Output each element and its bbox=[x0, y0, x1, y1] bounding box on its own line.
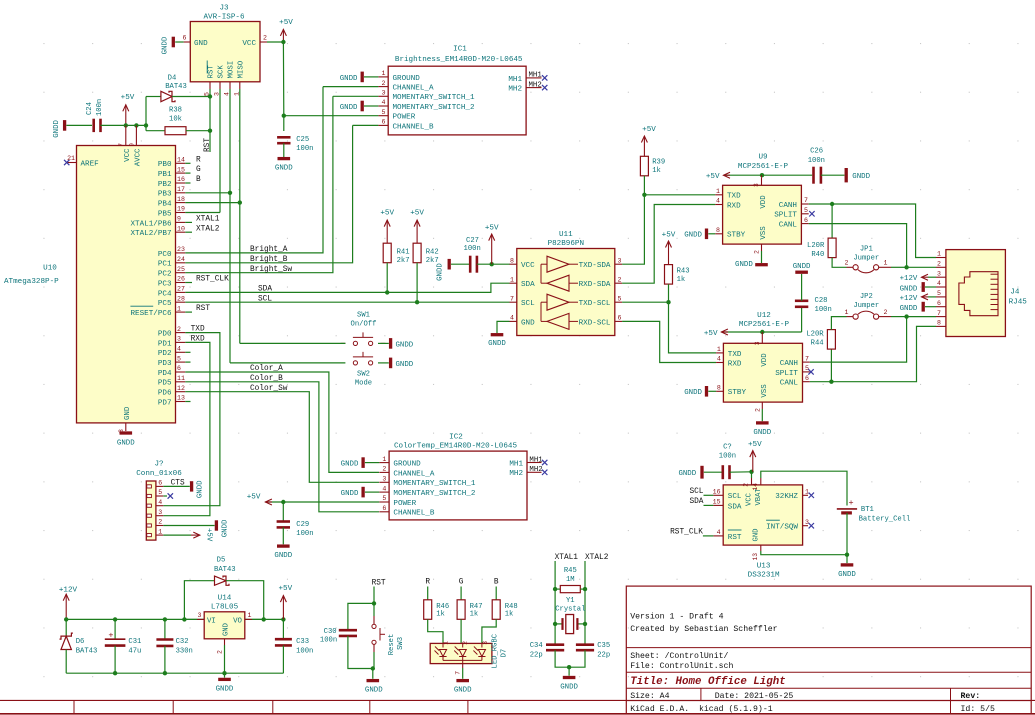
svg-text:GNDD: GNDD bbox=[396, 341, 414, 349]
svg-text:CHANNEL_B: CHANNEL_B bbox=[393, 510, 434, 518]
svg-text:2: 2 bbox=[382, 466, 386, 473]
svg-text:POWER: POWER bbox=[393, 500, 416, 508]
svg-text:14: 14 bbox=[177, 157, 185, 164]
svg-text:RXD: RXD bbox=[191, 336, 205, 344]
svg-text:GND: GND bbox=[222, 623, 230, 636]
svg-text:CHANNEL_A: CHANNEL_A bbox=[393, 470, 434, 478]
svg-text:2k7: 2k7 bbox=[397, 257, 410, 265]
svg-text:2: 2 bbox=[158, 519, 162, 526]
svg-text:GNDD: GNDD bbox=[560, 683, 578, 691]
svg-text:ATmega328P-P: ATmega328P-P bbox=[4, 278, 59, 286]
svg-text:PC1: PC1 bbox=[158, 261, 172, 269]
svg-text:U12: U12 bbox=[757, 312, 771, 320]
svg-text:Jumper: Jumper bbox=[853, 254, 879, 262]
svg-text:AVCC: AVCC bbox=[134, 148, 142, 166]
svg-text:+12V: +12V bbox=[900, 295, 918, 303]
svg-text:PB5: PB5 bbox=[158, 210, 172, 218]
svg-text:SCL: SCL bbox=[258, 295, 272, 303]
svg-text:+5V: +5V bbox=[121, 94, 135, 102]
svg-text:1M: 1M bbox=[566, 576, 575, 584]
svg-text:3: 3 bbox=[382, 476, 386, 483]
svg-text:MOMENTARY_SWITCH_2: MOMENTARY_SWITCH_2 bbox=[393, 104, 475, 112]
svg-text:Bright_Sw: Bright_Sw bbox=[250, 266, 292, 274]
svg-text:Date: 2021-05-25: Date: 2021-05-25 bbox=[715, 692, 794, 701]
svg-text:L78L05: L78L05 bbox=[211, 603, 239, 611]
svg-text:11: 11 bbox=[177, 375, 185, 382]
svg-text:PC5: PC5 bbox=[158, 300, 172, 308]
svg-text:PD6: PD6 bbox=[158, 390, 172, 398]
svg-text:CANH: CANH bbox=[779, 202, 797, 210]
svg-text:GNDD: GNDD bbox=[793, 263, 811, 271]
svg-text:GND: GND bbox=[753, 529, 761, 542]
svg-text:100n: 100n bbox=[296, 145, 313, 153]
svg-text:+5V: +5V bbox=[279, 19, 293, 27]
svg-text:BAT43: BAT43 bbox=[214, 566, 236, 574]
svg-text:+12V: +12V bbox=[59, 587, 78, 595]
svg-text:SCL: SCL bbox=[728, 493, 742, 501]
svg-text:4: 4 bbox=[717, 356, 721, 363]
svg-text:+12V: +12V bbox=[900, 275, 918, 283]
svg-text:C32: C32 bbox=[176, 638, 189, 646]
svg-text:Size: A4: Size: A4 bbox=[630, 691, 669, 701]
svg-text:Sheet: /ControlUnit/: Sheet: /ControlUnit/ bbox=[630, 651, 728, 661]
svg-text:2: 2 bbox=[937, 261, 941, 268]
svg-text:CANL: CANL bbox=[780, 380, 799, 388]
svg-text:GROUND: GROUND bbox=[393, 461, 421, 469]
svg-text:1k: 1k bbox=[436, 611, 445, 619]
svg-text:+5V: +5V bbox=[642, 126, 656, 134]
svg-text:5: 5 bbox=[382, 495, 386, 502]
svg-text:G: G bbox=[196, 166, 201, 174]
svg-text:R43: R43 bbox=[677, 268, 690, 276]
svg-text:14: 14 bbox=[752, 483, 759, 491]
svg-text:File: ControlUnit.sch: File: ControlUnit.sch bbox=[630, 661, 733, 671]
svg-text:GNDD: GNDD bbox=[735, 261, 753, 269]
svg-text:2: 2 bbox=[754, 250, 761, 254]
svg-text:GNDD: GNDD bbox=[838, 571, 856, 579]
svg-text:+5V: +5V bbox=[205, 528, 213, 542]
svg-text:Id: 5/5: Id: 5/5 bbox=[961, 704, 995, 714]
svg-text:Jumper: Jumper bbox=[853, 302, 879, 310]
svg-text:Crystal: Crystal bbox=[555, 605, 585, 613]
svg-text:PC0: PC0 bbox=[158, 251, 172, 259]
svg-text:TXD-SDA: TXD-SDA bbox=[579, 262, 611, 270]
svg-text:330n: 330n bbox=[176, 647, 193, 655]
svg-text:VI: VI bbox=[207, 617, 216, 625]
svg-text:TXD-SCL: TXD-SCL bbox=[579, 300, 611, 308]
svg-text:Brightness_EM14R0D-M20-L0645: Brightness_EM14R0D-M20-L0645 bbox=[395, 56, 523, 64]
svg-text:RST_CLK: RST_CLK bbox=[196, 276, 229, 284]
svg-text:+5V: +5V bbox=[704, 330, 718, 338]
svg-text:GNDD: GNDD bbox=[117, 440, 135, 448]
svg-text:MOMENTARY_SWITCH_1: MOMENTARY_SWITCH_1 bbox=[393, 94, 475, 102]
svg-text:3: 3 bbox=[382, 90, 386, 97]
svg-text:U9: U9 bbox=[758, 154, 768, 162]
svg-text:XTAL1: XTAL1 bbox=[196, 216, 220, 224]
svg-text:6: 6 bbox=[183, 35, 187, 42]
svg-text:1: 1 bbox=[382, 456, 386, 463]
svg-text:5: 5 bbox=[937, 290, 941, 297]
svg-text:PD1: PD1 bbox=[158, 340, 172, 348]
svg-text:GNDD: GNDD bbox=[488, 340, 506, 348]
svg-text:5: 5 bbox=[177, 355, 181, 362]
svg-text:U11: U11 bbox=[559, 231, 573, 239]
svg-text:5: 5 bbox=[805, 365, 809, 372]
svg-text:GNDD: GNDD bbox=[221, 519, 229, 537]
svg-text:VSS: VSS bbox=[761, 384, 769, 398]
svg-text:PD5: PD5 bbox=[158, 380, 172, 388]
svg-text:IC1: IC1 bbox=[453, 46, 467, 54]
svg-text:1k: 1k bbox=[470, 611, 479, 619]
svg-text:3: 3 bbox=[482, 641, 489, 645]
svg-text:2: 2 bbox=[263, 35, 267, 42]
svg-text:Created by Sebastian Scheffler: Created by Sebastian Scheffler bbox=[630, 624, 777, 634]
svg-text:BT1: BT1 bbox=[861, 506, 874, 514]
svg-text:R39: R39 bbox=[652, 159, 665, 167]
svg-text:DS3231M: DS3231M bbox=[748, 572, 780, 580]
svg-text:R40: R40 bbox=[811, 251, 824, 259]
svg-text:5: 5 bbox=[618, 295, 622, 302]
svg-text:27: 27 bbox=[177, 286, 185, 293]
svg-text:1: 1 bbox=[884, 260, 888, 267]
svg-text:3: 3 bbox=[753, 183, 760, 187]
svg-text:4: 4 bbox=[510, 315, 514, 322]
svg-text:VCC: VCC bbox=[521, 262, 535, 270]
svg-text:+5V: +5V bbox=[706, 173, 720, 181]
svg-text:RESET/PC6: RESET/PC6 bbox=[130, 310, 171, 318]
svg-text:100n: 100n bbox=[719, 453, 736, 461]
svg-text:C26: C26 bbox=[810, 148, 823, 156]
svg-text:R47: R47 bbox=[470, 603, 483, 611]
svg-text:15: 15 bbox=[713, 499, 721, 506]
svg-text:3: 3 bbox=[754, 341, 761, 345]
svg-text:PD3: PD3 bbox=[158, 360, 172, 368]
svg-text:PD4: PD4 bbox=[158, 370, 172, 378]
svg-text:1: 1 bbox=[382, 70, 386, 77]
svg-text:R: R bbox=[425, 578, 430, 586]
svg-text:10k: 10k bbox=[169, 116, 182, 124]
svg-text:3: 3 bbox=[618, 257, 622, 264]
svg-text:5: 5 bbox=[382, 109, 386, 116]
svg-text:MH2: MH2 bbox=[509, 470, 523, 478]
svg-text:RST: RST bbox=[196, 305, 210, 313]
svg-text:D5: D5 bbox=[217, 557, 226, 565]
svg-text:JP2: JP2 bbox=[860, 293, 873, 301]
svg-text:POWER: POWER bbox=[393, 114, 416, 122]
svg-text:TXD: TXD bbox=[727, 193, 741, 201]
svg-text:GNDD: GNDD bbox=[162, 36, 170, 54]
svg-text:1: 1 bbox=[716, 188, 720, 195]
svg-text:+5V: +5V bbox=[485, 225, 499, 233]
svg-text:Title: Home Office Light: Title: Home Office Light bbox=[630, 676, 786, 688]
svg-text:Bright_B: Bright_B bbox=[250, 256, 288, 264]
svg-text:MH2: MH2 bbox=[529, 81, 542, 89]
svg-text:MCP2561-E-P: MCP2561-E-P bbox=[739, 321, 790, 329]
svg-text:1: 1 bbox=[443, 641, 450, 645]
svg-text:MH2: MH2 bbox=[508, 86, 522, 94]
svg-text:3: 3 bbox=[198, 612, 202, 619]
svg-text:GND: GND bbox=[194, 40, 208, 48]
svg-text:RST: RST bbox=[728, 534, 742, 542]
svg-text:+5V: +5V bbox=[748, 441, 762, 449]
svg-text:23: 23 bbox=[177, 246, 185, 253]
svg-text:MISO: MISO bbox=[237, 60, 245, 78]
svg-text:GNDD: GNDD bbox=[365, 687, 383, 695]
svg-text:1: 1 bbox=[177, 305, 181, 312]
svg-text:R38: R38 bbox=[169, 107, 182, 115]
svg-text:J4: J4 bbox=[1010, 289, 1020, 297]
svg-text:1k: 1k bbox=[505, 611, 514, 619]
svg-text:VCC: VCC bbox=[124, 148, 132, 162]
svg-text:U10: U10 bbox=[43, 265, 57, 273]
svg-text:R46: R46 bbox=[436, 603, 449, 611]
svg-text:Version 1 - Draft 4: Version 1 - Draft 4 bbox=[630, 611, 723, 621]
svg-text:VDD: VDD bbox=[760, 195, 768, 209]
svg-text:22p: 22p bbox=[530, 651, 543, 659]
svg-text:VSS: VSS bbox=[760, 226, 768, 240]
svg-text:MH1: MH1 bbox=[509, 460, 523, 468]
svg-text:7: 7 bbox=[805, 355, 809, 362]
svg-text:U14: U14 bbox=[218, 595, 232, 603]
svg-text:PB3: PB3 bbox=[158, 191, 172, 199]
svg-text:1: 1 bbox=[805, 489, 809, 496]
svg-text:100n: 100n bbox=[320, 637, 337, 645]
svg-text:+5V: +5V bbox=[662, 232, 676, 240]
svg-text:GNDD: GNDD bbox=[53, 119, 61, 137]
svg-text:GND: GND bbox=[124, 406, 132, 420]
svg-text:Reset: Reset bbox=[388, 634, 396, 656]
svg-text:RST: RST bbox=[208, 65, 216, 79]
svg-text:Color_B: Color_B bbox=[250, 375, 283, 383]
svg-text:GNDD: GNDD bbox=[684, 389, 702, 397]
svg-text:22p: 22p bbox=[597, 651, 610, 659]
svg-text:XTAL2: XTAL2 bbox=[585, 554, 609, 562]
svg-text:G: G bbox=[459, 578, 464, 586]
svg-text:GNDD: GNDD bbox=[753, 429, 771, 437]
svg-text:4: 4 bbox=[716, 198, 720, 205]
svg-text:PD0: PD0 bbox=[158, 331, 172, 339]
svg-text:GROUND: GROUND bbox=[393, 75, 421, 83]
svg-text:13: 13 bbox=[752, 553, 759, 561]
svg-text:19: 19 bbox=[177, 206, 185, 213]
svg-text:SPLIT: SPLIT bbox=[775, 370, 798, 378]
svg-text:17: 17 bbox=[177, 186, 185, 193]
svg-text:TXD: TXD bbox=[728, 351, 742, 359]
svg-text:INT/SQW: INT/SQW bbox=[766, 524, 798, 532]
svg-text:BAT43: BAT43 bbox=[76, 647, 98, 655]
svg-text:C29: C29 bbox=[296, 521, 309, 529]
svg-text:8: 8 bbox=[717, 385, 721, 392]
svg-text:100n: 100n bbox=[808, 157, 825, 165]
svg-text:Conn_01x06: Conn_01x06 bbox=[136, 470, 182, 478]
svg-text:MOMENTARY_SWITCH_1: MOMENTARY_SWITCH_1 bbox=[393, 480, 475, 488]
svg-text:2: 2 bbox=[177, 326, 181, 333]
svg-text:5: 5 bbox=[804, 207, 808, 214]
svg-text:1k: 1k bbox=[677, 276, 686, 284]
svg-text:GNDD: GNDD bbox=[900, 286, 918, 294]
svg-text:R48: R48 bbox=[505, 603, 518, 611]
svg-text:32KHZ: 32KHZ bbox=[775, 493, 798, 501]
svg-text:CHANNEL_B: CHANNEL_B bbox=[393, 123, 434, 131]
svg-text:PD7: PD7 bbox=[158, 399, 172, 407]
svg-text:2: 2 bbox=[217, 650, 224, 654]
svg-text:2: 2 bbox=[845, 260, 849, 267]
svg-text:RXD: RXD bbox=[727, 202, 741, 210]
svg-text:SW2: SW2 bbox=[357, 370, 370, 378]
svg-text:D7: D7 bbox=[501, 649, 509, 658]
svg-text:18: 18 bbox=[177, 196, 185, 203]
svg-text:1: 1 bbox=[248, 612, 252, 619]
svg-text:SCK: SCK bbox=[218, 65, 226, 79]
svg-text:4: 4 bbox=[382, 485, 386, 492]
svg-text:XTAL1: XTAL1 bbox=[555, 554, 579, 562]
svg-text:1: 1 bbox=[845, 309, 849, 316]
svg-text:2: 2 bbox=[884, 309, 888, 316]
svg-text:26: 26 bbox=[177, 276, 185, 283]
svg-text:PB2: PB2 bbox=[158, 181, 172, 189]
svg-text:PB1: PB1 bbox=[158, 171, 172, 179]
svg-text:L20R: L20R bbox=[807, 242, 825, 250]
svg-text:24: 24 bbox=[177, 256, 185, 263]
svg-text:47u: 47u bbox=[128, 647, 141, 655]
svg-text:R44: R44 bbox=[811, 339, 824, 347]
svg-text:2: 2 bbox=[382, 80, 386, 87]
svg-text:RXD: RXD bbox=[728, 360, 742, 368]
svg-text:RXD-SDA: RXD-SDA bbox=[579, 281, 611, 289]
svg-text:SCL: SCL bbox=[689, 488, 703, 496]
svg-text:XTAL2/PB7: XTAL2/PB7 bbox=[130, 230, 171, 238]
svg-text:C34: C34 bbox=[530, 642, 543, 650]
svg-text:B: B bbox=[196, 176, 201, 184]
svg-text:3: 3 bbox=[177, 336, 181, 343]
svg-text:B: B bbox=[494, 578, 499, 586]
svg-text:GNDD: GNDD bbox=[216, 686, 234, 694]
svg-text:GNDD: GNDD bbox=[852, 173, 870, 181]
svg-text:R41: R41 bbox=[397, 248, 410, 256]
svg-text:GNDD: GNDD bbox=[341, 461, 359, 469]
svg-text:CTS: CTS bbox=[171, 479, 185, 487]
svg-text:100n: 100n bbox=[464, 245, 481, 253]
svg-text:Bright_A: Bright_A bbox=[250, 246, 288, 254]
svg-text:Color_A: Color_A bbox=[250, 365, 283, 373]
svg-text:GNDD: GNDD bbox=[340, 75, 358, 83]
svg-text:1: 1 bbox=[717, 346, 721, 353]
svg-text:U13: U13 bbox=[757, 563, 771, 571]
svg-text:100n: 100n bbox=[96, 99, 104, 116]
svg-text:6: 6 bbox=[382, 505, 386, 512]
svg-text:GNDD: GNDD bbox=[454, 687, 472, 695]
svg-text:GNDD: GNDD bbox=[341, 490, 359, 498]
svg-text:SDA: SDA bbox=[258, 286, 272, 294]
svg-text:RST: RST bbox=[372, 579, 386, 587]
svg-text:VO: VO bbox=[233, 617, 242, 625]
svg-text:7: 7 bbox=[804, 197, 808, 204]
svg-text:4: 4 bbox=[717, 529, 721, 536]
svg-text:MH1: MH1 bbox=[508, 76, 522, 84]
svg-text:TXD: TXD bbox=[191, 326, 205, 334]
svg-text:PB4: PB4 bbox=[158, 201, 172, 209]
svg-text:PC2: PC2 bbox=[158, 271, 172, 279]
svg-text:8: 8 bbox=[937, 320, 941, 327]
svg-text:R45: R45 bbox=[564, 567, 577, 575]
svg-text:MH2: MH2 bbox=[529, 466, 542, 474]
svg-text:C31: C31 bbox=[128, 638, 141, 646]
svg-text:GND: GND bbox=[521, 319, 535, 327]
svg-text:AREF: AREF bbox=[81, 160, 100, 168]
svg-text:7: 7 bbox=[937, 310, 941, 317]
svg-text:10: 10 bbox=[177, 225, 185, 232]
svg-text:4: 4 bbox=[382, 99, 386, 106]
svg-text:XTAL1/PB6: XTAL1/PB6 bbox=[130, 220, 171, 228]
svg-text:MOSI: MOSI bbox=[228, 61, 236, 79]
svg-text:16: 16 bbox=[177, 176, 185, 183]
svg-text:C25: C25 bbox=[296, 136, 309, 144]
svg-text:13: 13 bbox=[177, 395, 185, 402]
svg-text:CHANNEL_A: CHANNEL_A bbox=[393, 85, 434, 93]
svg-text:4: 4 bbox=[177, 346, 181, 353]
svg-text:J?: J? bbox=[154, 461, 163, 469]
svg-text:1k: 1k bbox=[652, 167, 661, 175]
svg-text:VDD: VDD bbox=[761, 353, 769, 367]
svg-text:C27: C27 bbox=[466, 237, 479, 245]
svg-text:C24: C24 bbox=[86, 102, 94, 115]
svg-text:1: 1 bbox=[158, 528, 162, 535]
svg-text:L20R: L20R bbox=[806, 331, 824, 339]
svg-text:3: 3 bbox=[937, 270, 941, 277]
svg-text:GNDD: GNDD bbox=[900, 305, 918, 313]
svg-text:GNDD: GNDD bbox=[340, 104, 358, 112]
svg-text:SCL: SCL bbox=[521, 300, 535, 308]
svg-text:P82B96PN: P82B96PN bbox=[548, 240, 584, 248]
svg-text:9: 9 bbox=[177, 216, 181, 223]
svg-text:8: 8 bbox=[510, 257, 514, 264]
svg-text:R42: R42 bbox=[426, 248, 439, 256]
svg-text:R: R bbox=[196, 156, 201, 164]
svg-text:4: 4 bbox=[158, 499, 162, 506]
svg-text:2: 2 bbox=[743, 483, 750, 487]
svg-text:12: 12 bbox=[177, 385, 185, 392]
svg-text:1: 1 bbox=[937, 251, 941, 258]
svg-text:SDA: SDA bbox=[689, 498, 703, 506]
svg-text:4: 4 bbox=[937, 280, 941, 287]
svg-text:6: 6 bbox=[937, 300, 941, 307]
svg-text:28: 28 bbox=[177, 295, 185, 302]
svg-text:25: 25 bbox=[177, 266, 185, 273]
svg-text:C?: C? bbox=[723, 444, 732, 452]
svg-text:6: 6 bbox=[382, 119, 386, 126]
svg-text:PD2: PD2 bbox=[158, 350, 172, 358]
svg-text:PB0: PB0 bbox=[158, 161, 172, 169]
svg-text:GNDD: GNDD bbox=[678, 470, 696, 478]
svg-text:1: 1 bbox=[510, 276, 514, 283]
svg-text:15: 15 bbox=[177, 166, 185, 173]
svg-text:SDA: SDA bbox=[521, 281, 535, 289]
svg-text:100n: 100n bbox=[296, 530, 313, 538]
svg-text:C33: C33 bbox=[296, 638, 309, 646]
svg-text:RXD-SCL: RXD-SCL bbox=[579, 319, 611, 327]
svg-text:Color_Sw: Color_Sw bbox=[250, 385, 288, 393]
svg-text:6: 6 bbox=[804, 217, 808, 224]
svg-text:+5V: +5V bbox=[410, 210, 424, 218]
svg-text:PC3: PC3 bbox=[158, 280, 172, 288]
svg-text:RST_CLK: RST_CLK bbox=[670, 528, 703, 536]
svg-text:Rev:: Rev: bbox=[961, 692, 981, 701]
svg-text:SW3: SW3 bbox=[397, 637, 405, 650]
svg-text:GNDD: GNDD bbox=[437, 263, 445, 281]
svg-text:SW1: SW1 bbox=[357, 312, 370, 320]
svg-text:C30: C30 bbox=[324, 628, 337, 636]
svg-text:J3: J3 bbox=[219, 5, 229, 13]
